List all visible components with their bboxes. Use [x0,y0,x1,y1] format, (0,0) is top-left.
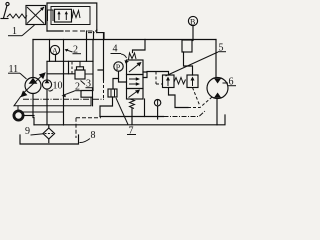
tank box [20,135,79,144]
outer enclosure rectangle [47,3,97,31]
left block frame wires [49,40,51,62]
label 9 [25,126,44,137]
pilot pump 10 [42,62,51,125]
wire from block to main line [98,33,104,80]
svg-text:4: 4 [113,44,118,55]
valve 2-arrows position box [55,9,72,22]
relief valve 5 main box [163,75,175,88]
label 10 [49,81,63,92]
cross wires in block [47,60,93,62]
relief pilot box [187,75,198,88]
dash-dot assembly boundary horizontal [23,98,104,100]
breather ring [14,106,64,120]
spring left of valve 1 [7,14,27,18]
label 8 [80,130,96,143]
motor 6 [207,78,228,99]
label 11 [8,64,27,79]
label 2 bottom [62,82,83,98]
valve 1 left position box (crossed arrows) [26,6,46,25]
tank return rail [34,124,217,126]
pilot valve block with cap [75,61,93,79]
motor return wire [217,99,225,125]
motor supply wire [215,40,217,78]
dashed boundary vertical [103,80,105,99]
gauge P [114,62,123,72]
step wire from enclosure to main pressure line [97,30,104,40]
valve 4 drain wire to return line [144,99,146,117]
filter 9 [43,125,55,143]
gauge A [50,45,59,61]
dashed pilot line in block [71,62,73,74]
main pressure line (top rail) [33,39,216,41]
svg-text:8: 8 [91,130,96,141]
wire to relief valve 5 top [147,72,169,76]
pump control tail [14,96,91,106]
stub valve 4 to gauge P wire [119,79,127,83]
port marks between valve 1 boxes [48,10,54,22]
pilot filter block [108,89,117,97]
lever actuator of valve 1 [1,2,9,18]
gauge at return line [154,100,160,120]
pump suction wire [33,94,34,125]
label 1 [8,25,35,37]
pump 11 (variable displacement) [20,72,45,97]
spring right of arrows box [72,11,80,19]
valve 4 right stubs [143,72,147,78]
spring between relief boxes [174,78,186,85]
plugged port block under line at B [182,40,192,52]
wire under pilot filter [100,97,113,117]
label 5 [166,43,227,77]
label 6 [223,77,237,88]
dash-dot boundary right [164,111,206,117]
valve output wire into block [86,31,88,61]
valve 4 throttle cell [127,75,144,89]
valve 4 compensator cell [127,60,144,75]
inner enclosure rectangle around pilot valve [51,7,90,25]
label 3 [81,79,94,90]
dashed drain from pilot box [193,88,200,106]
label 4 [111,44,130,64]
wire 2 vertical [63,40,65,126]
svg-text:10: 10 [53,81,63,92]
label 7 [116,98,136,137]
wire drop to valve 4 top [133,40,146,53]
wire gauge P to pilot filter [113,71,119,89]
dash-dot stub near enclosure bottom [88,32,97,34]
relief drain staircase [169,88,189,108]
drain line with label 8 [76,117,101,119]
wire valve 4 bottom to tank rail [131,109,133,125]
spring on top of valve 4 [129,53,137,60]
wire from B block to pilot relief 5 [184,52,193,75]
gauge B [188,16,197,40]
dashed drain to motor case [188,97,212,108]
svg-text:9: 9 [25,126,30,137]
pilot dashes left of relief valve [156,72,163,85]
spring under valve 4 [130,99,135,109]
label 2 top [65,45,82,56]
valve 4 bottom cell [127,89,144,100]
left block top wire from pump [32,40,34,78]
